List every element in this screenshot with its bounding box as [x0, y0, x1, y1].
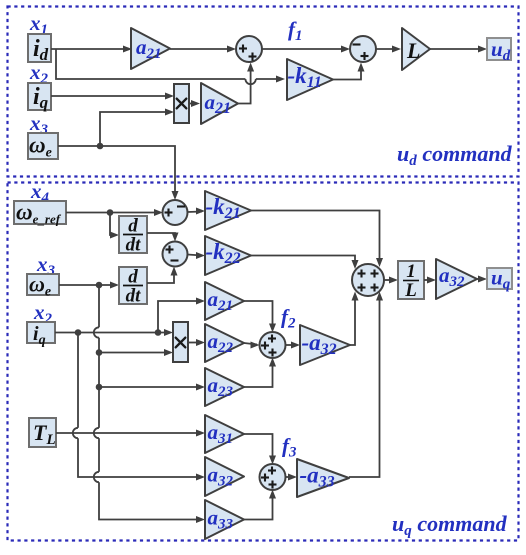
gain -k21 — [205, 191, 251, 230]
svg-text:dt: dt — [126, 286, 142, 307]
gain a21 (second, top section) — [201, 83, 238, 124]
wire iq right to multiplier2 top input — [55, 332, 169, 334]
wire 1/L to a32 output gain — [424, 279, 433, 281]
wire iq to multiplier — [51, 95, 171, 97]
wire a22 to sum5 left — [244, 343, 257, 345]
gain -a33 — [297, 459, 349, 497]
ud command section dashed border — [8, 7, 519, 177]
summing junction sum4 (+ -) — [163, 242, 188, 267]
wire -a32 up to big sum bottom left — [350, 294, 355, 345]
gain a23 — [205, 368, 244, 406]
multiplier (top section) — [174, 84, 189, 123]
svg-text:dt: dt — [126, 235, 142, 256]
summing junction sum6 (+++) f3 — [260, 464, 286, 490]
gain L — [402, 28, 430, 70]
wire a32 to uq box — [477, 278, 484, 280]
iq trunk down to a32 row (trunk bulges at TL row crossing) — [77, 333, 79, 428]
gain a31 — [205, 415, 244, 453]
summing junction sum2 (- +) — [350, 36, 376, 62]
wire -a33 up to big sum bottom right — [349, 294, 380, 477]
wire TL to a31 (straight; trunks bulge around it) — [56, 432, 202, 434]
wire sum1 to sum2 — [262, 48, 347, 50]
input box x2 = iq — [28, 83, 51, 110]
input box x3 = we (lower) — [27, 274, 59, 295]
wire trunk to multiplier2 lower input — [96, 349, 103, 356]
svg-text:command: command — [418, 141, 513, 166]
wire we_ref to sum3 — [66, 212, 160, 214]
wire sum2 to L — [376, 48, 398, 50]
junction dot on we_ref wire — [107, 209, 114, 216]
gain a32 (output) — [436, 259, 477, 299]
wire sum6 to -a33 — [285, 476, 295, 478]
junction dot iq trunk — [75, 329, 82, 336]
wire multiplier to a21 (second) — [189, 103, 197, 105]
wire -k21 to big sum top right — [251, 211, 380, 265]
summing junction sum3 (+ -) — [163, 200, 188, 225]
wire sum4 to -k22 — [188, 255, 203, 256]
wire id branch down to -k11 (hops the vertical riser at x=250.6) — [56, 49, 245, 79]
gain a22 — [205, 324, 244, 362]
wire a31 to sum6 top — [244, 434, 273, 462]
wire d/dt2 to sum4 bottom — [147, 269, 174, 283]
junction dot we lower — [96, 282, 103, 289]
gain -k11 — [287, 59, 333, 100]
gain -k22 — [205, 236, 251, 275]
gain a21 (third) — [205, 282, 244, 320]
wire a21 to sum5 top — [244, 301, 273, 330]
multiplier 2 — [173, 322, 188, 362]
wire a33 to sum6 bottom — [244, 492, 273, 520]
input box x2 = iq (lower) — [27, 322, 55, 343]
wire L to ud box — [430, 48, 484, 50]
output box ud — [487, 38, 511, 60]
wire a21 to sum1 — [170, 48, 233, 50]
wire we right with junction, down into uq section — [58, 146, 175, 197]
svg-text:d: d — [128, 267, 138, 288]
derivative block d/dt 1 — [119, 216, 147, 253]
gain a21 (top) — [131, 28, 170, 69]
we trunk down: hops iq row, TL row, a32 row; feeds multiplier2, a23, a33 — [98, 285, 100, 327]
input box TL — [29, 418, 56, 447]
summing junction sum5 (+++) f2 — [260, 332, 286, 358]
wire we to d/dt 2 — [59, 284, 116, 286]
wire -k22 to big sum top left — [251, 256, 355, 267]
wire -k11 to sum2 bottom — [333, 65, 361, 80]
svg-text:command: command — [413, 511, 508, 536]
wire we branch up into multiplier lower input — [100, 112, 171, 146]
wire trunk to a23 — [96, 384, 103, 391]
uq command section dashed border — [8, 183, 519, 541]
gain a32 — [205, 457, 244, 496]
wire id to a21 — [51, 48, 129, 50]
svg-text:L: L — [404, 280, 417, 301]
gain -a32 — [300, 325, 350, 365]
wire d/dt1 to sum4 top — [147, 233, 175, 239]
svg-text:1: 1 — [406, 261, 416, 282]
svg-text:L: L — [406, 38, 420, 63]
summing junction sum1 (+ +) — [236, 36, 262, 62]
big summing junction (4 plus) — [352, 264, 384, 296]
wire a23 to sum5 bottom — [244, 360, 273, 387]
junction dot at riser to a21 — [155, 329, 162, 336]
input box x3 = we — [28, 133, 58, 159]
svg-text:d: d — [128, 216, 138, 237]
wire a21 up to sum1 bottom — [238, 65, 251, 104]
gain a33 — [205, 500, 244, 539]
derivative block d/dt 2 — [119, 267, 147, 304]
wire riser up to a21 (third) — [158, 301, 202, 333]
junction dot on we wire — [97, 143, 104, 150]
block 1/L — [398, 261, 424, 299]
input box x1 = id — [28, 34, 51, 62]
output box uq — [487, 268, 512, 289]
wire big sum to 1/L — [384, 279, 395, 281]
input box x4 = we_ref — [14, 201, 66, 224]
wire multiplier2 to a22 — [188, 342, 202, 344]
wire sum5 to -a32 — [285, 344, 298, 346]
wire sum3 to -k21 — [188, 211, 203, 214]
wire we_ref branch down to d/dt 1 — [110, 213, 116, 236]
